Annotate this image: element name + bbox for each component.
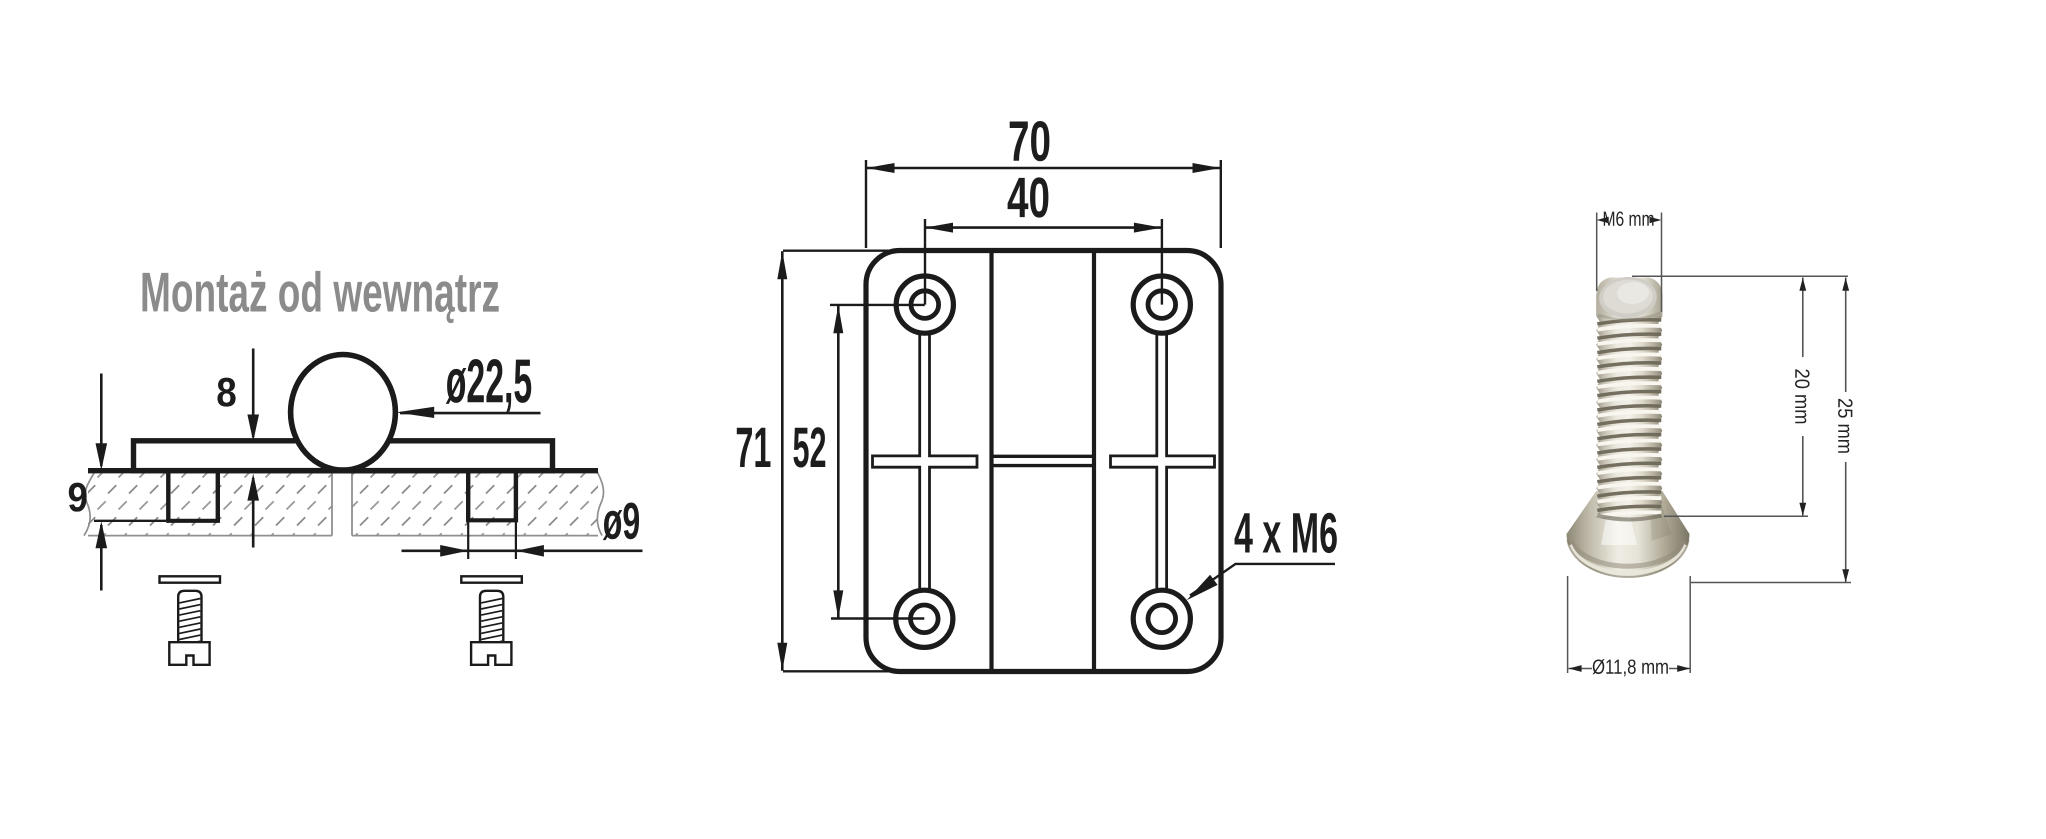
mortise hole right <box>466 471 470 521</box>
dimension 70 ext line right <box>1220 160 1222 248</box>
dimension 9 arrow down <box>96 443 108 470</box>
label 4 x M6 <box>1234 501 1338 565</box>
dimension o9 arrow left <box>516 545 544 557</box>
svg-text:25 mm: 25 mm <box>1833 398 1856 454</box>
label diameter 11,8 mm <box>1592 656 1669 679</box>
screw top ext line <box>1632 275 1848 277</box>
knuckle gap line lower <box>992 464 1095 467</box>
dimension 40 ext line left <box>924 219 926 305</box>
svg-text:40: 40 <box>1007 166 1050 230</box>
dimension 8 text <box>216 369 237 415</box>
hinge plate outline <box>866 251 1221 672</box>
dimension 40 arrow left <box>925 223 953 233</box>
dimension 8 arrow up <box>247 474 259 501</box>
dim 11.8 line left <box>1569 668 1592 670</box>
hole top-left inner circle <box>911 291 939 319</box>
dim 25mm line upper <box>1845 278 1847 393</box>
svg-text:9: 9 <box>68 474 89 520</box>
dim 20mm arrow up <box>1799 278 1806 291</box>
svg-text:52: 52 <box>792 416 826 480</box>
dim M6 ext line right <box>1661 213 1663 313</box>
screw photo throat shadow <box>1597 516 1661 520</box>
dimension 9 arrow up <box>96 521 108 548</box>
svg-text:4 x M6: 4 x M6 <box>1234 501 1338 565</box>
screw photo head cone <box>1567 491 1690 578</box>
leader line o22,5 <box>400 412 541 415</box>
dimension 71 ext line top <box>783 249 903 251</box>
screw photo top dome <box>1596 278 1662 317</box>
dimension 40 ext line right <box>1161 219 1163 305</box>
dim M6 arrow right <box>1650 217 1662 223</box>
svg-text:ø9: ø9 <box>603 493 641 551</box>
right slot cross <box>1111 333 1215 591</box>
dimension 8 line lower <box>252 478 255 548</box>
dimension o9 line <box>402 549 643 552</box>
dimension 9 text <box>68 474 89 520</box>
dim 25mm arrow down <box>1842 569 1849 582</box>
dim 11.8 ext line left <box>1567 576 1569 673</box>
dimension o9 ext line left <box>467 522 469 559</box>
dim 25mm line lower <box>1845 462 1847 582</box>
dimension 70 text <box>1008 110 1051 174</box>
hole bottom-left inner circle <box>911 605 939 633</box>
dimension 71 line <box>781 251 784 671</box>
dimension 70 ext line left <box>865 160 867 248</box>
dim 20mm line upper <box>1802 278 1804 358</box>
hole bottom-left outer circle <box>896 590 953 647</box>
dimension 9 extension line <box>94 520 166 522</box>
dimension 70 arrow left <box>867 163 895 173</box>
svg-text:8: 8 <box>216 369 237 415</box>
label M6 mm <box>1602 208 1654 231</box>
svg-text:ø22,5: ø22,5 <box>446 347 533 416</box>
left slot cross <box>873 333 978 591</box>
dimension 52 arrow down <box>833 590 843 618</box>
dimension 52 line <box>837 305 840 618</box>
screw photo thread grooves <box>1597 320 1661 324</box>
dim 25mm arrow up <box>1842 278 1849 291</box>
dimension 40 line <box>925 226 1162 229</box>
dim 11.8 arrow left <box>1569 665 1582 672</box>
dimension 71 ext line bottom <box>783 670 903 672</box>
svg-text:70: 70 <box>1008 110 1051 174</box>
dim 20mm line lower <box>1802 436 1804 516</box>
label o22,5 <box>446 347 533 416</box>
mortise hole left <box>166 471 170 521</box>
dim 20mm arrow down <box>1799 503 1806 516</box>
leader arrow o22,5 <box>396 407 434 418</box>
knuckle gap line upper <box>992 455 1095 458</box>
label o9 <box>603 493 641 551</box>
glass top edge line <box>88 468 598 473</box>
title: Montaz od wewnatrz <box>140 260 500 323</box>
dim 20mm bottom ext line <box>1664 515 1808 517</box>
dimension 70 line <box>867 167 1221 170</box>
dimension 71 arrow down <box>777 643 787 671</box>
dimension 52 arrow up <box>833 305 843 333</box>
hole top-right inner circle <box>1148 291 1176 319</box>
leader arrow 4xM6 <box>1187 575 1218 600</box>
svg-text:71: 71 <box>735 416 771 480</box>
screw photo head bottom rim <box>1571 541 1685 566</box>
dim M6 arrow left <box>1597 217 1609 223</box>
dimension o9 ext line right <box>515 522 517 559</box>
dim 11.8 line right <box>1669 668 1690 670</box>
hinge knuckle circle <box>291 355 396 471</box>
screw photo thread shank <box>1596 278 1662 518</box>
dimension 9 line upper <box>100 374 103 467</box>
dimension 52 ext line top <box>830 304 925 306</box>
dim 11.8 ext line right <box>1689 576 1691 673</box>
dimension 71 arrow up <box>777 251 787 279</box>
svg-text:Ø11,8 mm: Ø11,8 mm <box>1592 656 1669 679</box>
hinge leaf bar (side view) <box>134 441 553 471</box>
svg-text:20 mm: 20 mm <box>1790 368 1813 424</box>
dimension 8 line upper <box>252 349 255 438</box>
dimension 71 text <box>735 416 771 480</box>
screw symbol right <box>461 576 522 582</box>
leader line 4xM6 <box>1190 564 1335 596</box>
label 25 mm <box>1833 398 1856 454</box>
dimension 9 line lower <box>100 525 103 591</box>
dimension 52 text <box>792 416 826 480</box>
dimension o9 arrow right <box>440 545 468 557</box>
dimension 8 arrow down <box>247 415 259 442</box>
dimension 52 ext line bottom <box>831 617 924 619</box>
svg-text:Montaż od wewnątrz: Montaż od wewnątrz <box>140 260 500 323</box>
dimension 40 text <box>1007 166 1050 230</box>
dimension 70 arrow right <box>1193 163 1221 173</box>
hole bottom-right outer circle <box>1133 590 1190 647</box>
leaf divider line left <box>989 251 993 672</box>
leaf divider line right <box>1092 251 1096 672</box>
screw symbol left <box>160 576 221 582</box>
svg-text:M6 mm: M6 mm <box>1602 208 1654 231</box>
dimension 40 arrow right <box>1134 223 1162 233</box>
hole bottom-right inner circle <box>1148 605 1176 633</box>
dim 25mm bottom ext line <box>1691 582 1851 584</box>
glass panel right (hatched) <box>352 472 598 536</box>
hole top-right outer circle <box>1133 276 1190 333</box>
hole top-left outer circle <box>896 276 953 333</box>
glass panel left (hatched) <box>88 472 332 536</box>
label 20 mm <box>1790 368 1813 424</box>
dim M6 ext line left <box>1596 213 1598 292</box>
bar bottom line over knuckle <box>292 468 395 473</box>
dim 11.8 arrow right <box>1677 665 1690 672</box>
